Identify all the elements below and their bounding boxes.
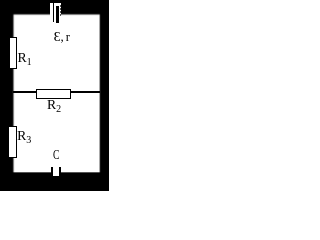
label R3 <box>17 129 31 143</box>
label C (capacitor) <box>53 148 59 161</box>
wire: bottom loop conductor (thick black band) <box>0 172 109 192</box>
wire: right loop conductor (thick black band) <box>99 0 109 191</box>
battery short thick plate (negative terminal) <box>56 6 59 24</box>
resistor R1 (rectangle on left conductor) <box>9 37 18 69</box>
wire: middle horizontal conductor <box>13 91 100 93</box>
wire: left loop conductor (thick black band) <box>0 0 15 191</box>
wire: top loop conductor (thick black band) <box>0 0 109 16</box>
label R2 <box>47 98 61 112</box>
resistor R3 (rectangle on left conductor) <box>8 126 17 158</box>
capacitor gap (white notch in bottom conductor) <box>53 166 60 176</box>
battery cell slot (white gap in top conductor) <box>50 3 61 17</box>
resistor R2 (rectangle on middle conductor) <box>36 89 71 99</box>
capacitor left plate <box>51 167 53 177</box>
capacitor right plate <box>59 167 61 177</box>
label R1 <box>18 51 32 65</box>
battery long thin plate (positive terminal) <box>53 3 54 22</box>
battery slot dotted artifact column <box>60 5 61 7</box>
label: EMF "Ɛ, r" of the cell <box>54 30 70 44</box>
